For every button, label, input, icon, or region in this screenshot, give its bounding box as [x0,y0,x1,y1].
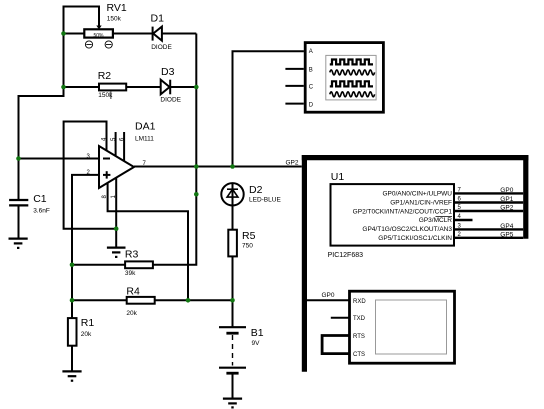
IC U1 box [331,184,455,246]
wire pin2 rail to R4 row [71,265,73,301]
wire scope A feed [233,51,304,166]
svg-text:D: D [309,102,314,108]
wire R4 left [72,299,127,301]
svg-text:PIC12F683: PIC12F683 [328,252,364,259]
resistor R4 [127,297,155,304]
wire D3 to right rail [170,86,196,88]
op-amp pin 6 [123,132,125,161]
wire pot left to rail [64,33,85,35]
svg-text:50%: 50% [93,33,104,39]
svg-text:DIODE: DIODE [160,97,181,104]
svg-text:39k: 39k [125,270,136,277]
svg-text:DA1: DA1 [135,121,156,133]
wire U1 pin4 stub [454,219,473,221]
ground under op-amp pin1 [107,248,126,257]
ground under R1 [62,371,81,380]
RV1 increment button [105,41,112,48]
wire RV1 wiper loop [64,7,100,34]
wire U1 pin5 [454,210,523,212]
svg-text:RV1: RV1 [107,2,127,14]
svg-text:R1: R1 [81,317,95,329]
wire pin4 feedback loop [64,122,117,229]
svg-text:GP1/AN1/CIN-/VREF: GP1/AN1/CIN-/VREF [390,199,452,206]
svg-text:3.6nF: 3.6nF [33,207,50,214]
bus thick top bar [302,155,529,160]
wire RTS-CTS loopback [322,336,349,354]
wire U1 pin2 [454,237,523,239]
svg-text:GP0: GP0 [500,187,513,194]
wire U1 pin7 [454,192,523,194]
resistor R2 [99,84,126,91]
svg-text:GP1: GP1 [500,196,513,203]
wire B1 to ground [232,373,234,398]
wire pot right to D1 [113,33,153,35]
potentiometer RV1 [84,29,113,39]
svg-text:D3: D3 [161,66,175,78]
scope trace sine wave 2 [330,92,375,97]
wire pin2 input [72,175,99,265]
svg-text:R3: R3 [125,249,139,261]
wire rail jog to far left and down to C1 [19,87,64,200]
wire R5 to R4 row [232,256,234,300]
wire pin3 input [19,158,100,160]
svg-text:GP2/T0CKI/INT/AN2/COUT/CCP1: GP2/T0CKI/INT/AN2/COUT/CCP1 [353,208,453,215]
diode D3 [161,80,171,95]
oscilloscope box [305,43,383,113]
oscilloscope screen [326,55,376,100]
wiper arrowhead [96,26,101,30]
wire C1 to ground [18,205,20,238]
wire pin8 loop [108,183,188,300]
svg-text:GP5: GP5 [500,231,513,238]
op-amp pin 5 [115,132,117,156]
wire D1 to right rail [162,33,196,35]
ground under C1 [9,239,28,248]
svg-text:GP2: GP2 [500,205,513,212]
svg-text:GP3/MCLR: GP3/MCLR [419,217,453,224]
svg-text:CTS: CTS [353,352,365,358]
op-amp DA1 [99,146,134,188]
svg-text:20k: 20k [126,310,137,317]
svg-text:B: B [309,67,313,73]
ground under B1 [223,399,242,408]
svg-text:D2: D2 [249,184,263,196]
RV1 decrement button [85,41,92,48]
terminal box [350,291,455,363]
scope trace sine wave 1 [330,70,375,75]
svg-text:RXD: RXD [353,299,366,305]
svg-text:R2: R2 [98,70,112,82]
wire R4 row to battery [232,300,234,327]
svg-text:DIODE: DIODE [151,44,172,51]
svg-text:R5: R5 [242,230,256,242]
svg-text:B1: B1 [251,327,264,339]
svg-text:R4: R4 [126,286,140,298]
wire U1 pin6 [454,201,523,203]
scope trace square wave 1 [330,60,373,65]
resistor R1 [68,318,77,346]
wire RXD from bus [307,299,350,301]
wire R1 to ground [71,346,73,372]
svg-text:D1: D1 [151,13,165,25]
wire R2 row left [64,86,100,88]
wire R1 top [71,300,73,318]
wire D2 to R5 [232,206,234,230]
wire scope D stub [285,103,303,105]
resistor R3 [125,261,153,268]
wire TXD stub [331,317,350,319]
wire pin1 to ground [115,178,117,248]
bus thick right vertical [523,155,528,239]
battery B1 [219,327,246,373]
svg-text:A: A [309,49,313,55]
svg-text:LM111: LM111 [135,136,154,143]
U1 MCLR overline [436,216,453,218]
svg-text:9V: 9V [252,340,261,347]
svg-text:150k: 150k [107,16,122,23]
svg-text:GP0/AN0/CIN+/ULPWU: GP0/AN0/CIN+/ULPWU [382,190,452,197]
wire output pin7 [134,166,302,168]
wire R3 left [72,264,125,266]
svg-text:RTS: RTS [353,334,365,340]
wire scope B stub [285,68,303,70]
svg-text:GP4/T1G/OSC2/CLKOUT/AN3: GP4/T1G/OSC2/CLKOUT/AN3 [362,226,452,233]
terminal screen [376,300,447,354]
bus thick left vertical [302,155,307,372]
LED D2 [221,183,243,205]
svg-text:750: 750 [242,243,253,250]
svg-text:U1: U1 [331,171,345,183]
svg-text:C: C [309,85,314,91]
wire left rail down to R2 row [63,34,65,88]
svg-text:20k: 20k [81,331,92,338]
svg-text:GP5/T1CKI/OSC1/CLKIN: GP5/T1CKI/OSC1/CLKIN [378,235,452,242]
resistor R5 [228,230,237,257]
wire U1 pin3 [454,228,523,230]
wire R4 right [155,299,233,301]
scope trace square wave 2 [330,81,373,86]
svg-text:LED-BLUE: LED-BLUE [249,197,281,204]
svg-text:C1: C1 [33,193,47,205]
capacitor C1 [9,200,28,205]
wire R2 to D3 [126,86,161,88]
wire right rail [153,34,196,265]
diode D1 [153,27,162,41]
wire scope C stub [285,85,303,87]
svg-text:GP0: GP0 [322,292,335,299]
svg-text:TXD: TXD [353,316,366,322]
svg-text:GP2: GP2 [286,160,299,167]
svg-text:GP4: GP4 [500,223,513,230]
